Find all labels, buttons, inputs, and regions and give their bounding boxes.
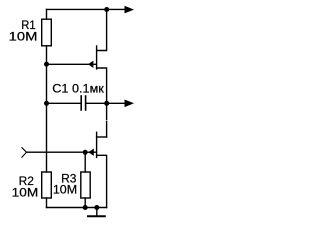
wire left rail R1 bottom to gate node: [46, 46, 48, 64]
resistor R2: [42, 172, 52, 198]
wire top rail: [47, 8, 125, 10]
wire left rail gate node to cap node: [46, 64, 48, 103]
svg-text:10M: 10M: [53, 183, 77, 197]
ground: [88, 215, 105, 217]
wire VT1 source lead: [97, 68, 107, 103]
junction input wire / R3: [83, 150, 88, 155]
svg-text:10M: 10M: [9, 29, 38, 43]
wire mid node down to VT2 drain: [106, 103, 108, 137]
wire VT2 drain lead: [97, 136, 107, 138]
VT2 gate arrow: [88, 149, 93, 156]
wire R2 bottom lead: [46, 198, 48, 208]
wire VT2 source lead: [97, 155, 107, 207]
svg-text:10M: 10M: [12, 186, 39, 200]
junction bottom rail / ground: [94, 205, 99, 210]
junction top rail / VT1 drain: [104, 7, 109, 12]
transistor VT2 channel bar: [96, 132, 98, 157]
resistor R1: [42, 19, 52, 46]
svg-text:C1 0.1мк: C1 0.1мк: [52, 82, 104, 96]
wire R3 bottom lead: [84, 198, 86, 208]
output arrow mid: [125, 100, 135, 108]
output arrow top: [125, 6, 135, 14]
wire bottom rail: [47, 207, 107, 209]
capacitor C1 right plate: [85, 96, 87, 110]
wire left rail cap node down to R2: [46, 103, 48, 172]
node mid output: [104, 101, 109, 106]
input terminal chevron: [22, 148, 27, 158]
wire VT1 drain lead: [97, 9, 107, 50]
capacitor C1 left plate: [80, 96, 82, 110]
resistor R3: [81, 172, 90, 198]
wire gate of VT1: [47, 63, 97, 65]
wire capacitor to mid node and output: [86, 102, 124, 104]
wire R1 top lead: [46, 9, 48, 19]
wire input to gate of VT2: [27, 151, 97, 153]
wire ground stub: [96, 208, 98, 216]
wire cap node to capacitor: [47, 102, 81, 104]
VT1 gate arrow: [88, 61, 93, 68]
transistor VT1 channel bar: [96, 46, 98, 69]
junction bottom rail / R3: [83, 205, 88, 210]
wire R3 top lead: [84, 152, 86, 172]
junction left rail / C1 wire: [44, 101, 49, 106]
junction left rail / VT1 gate: [44, 62, 49, 67]
